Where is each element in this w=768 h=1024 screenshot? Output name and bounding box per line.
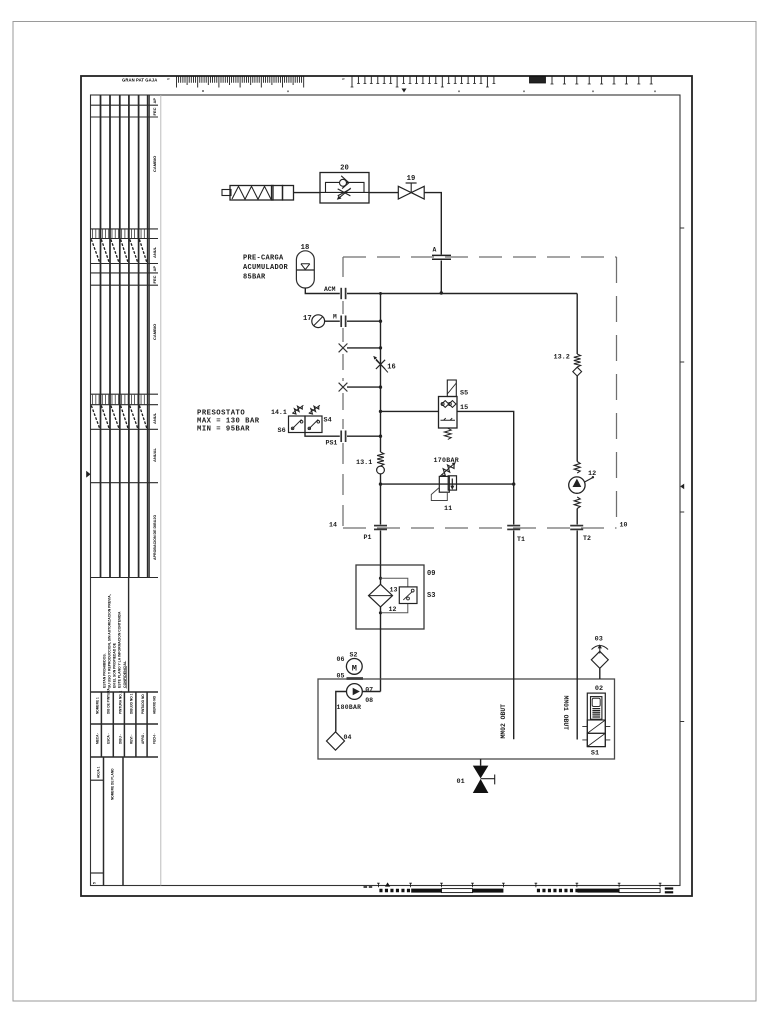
motor-pump coupling bar <box>347 677 364 680</box>
svg-text:20: 20 <box>340 165 349 173</box>
svg-text:NOMBRE 1: NOMBRE 1 <box>96 697 100 714</box>
pump suction wire <box>336 692 347 732</box>
filter diamond <box>369 584 393 607</box>
right frame edge ticks <box>680 228 684 722</box>
svg-text:HIERRO NO: HIERRO NO <box>152 695 156 714</box>
svg-text:FECH -: FECH - <box>152 733 156 744</box>
pump outlet wire <box>362 691 380 693</box>
svg-text:MECA -: MECA - <box>96 733 100 744</box>
bottom-right hamburger mark <box>665 887 673 889</box>
valve 15 poppet symbols <box>442 401 449 408</box>
title block: group 2 tick row <box>91 393 159 395</box>
svg-text:PRESOSTATO: PRESOSTATO <box>197 409 245 417</box>
svg-text:SU USO Y REPRODUCCION, SIN AUT: SU USO Y REPRODUCCION, SIN AUTORIZACION … <box>108 594 112 688</box>
svg-text:06: 06 <box>337 656 345 663</box>
title block: group 1 diagonal row <box>91 239 147 262</box>
pressure gauge 17 <box>312 315 325 328</box>
ruler group 1 fine ticks <box>177 77 304 88</box>
wire PS1 to main line <box>347 435 381 437</box>
svg-text:MM01 OBUT: MM01 OBUT <box>562 696 569 731</box>
svg-text:PINTURA NO. 1: PINTURA NO. 1 <box>119 691 123 714</box>
svg-text:11: 11 <box>444 505 452 513</box>
cylinder internal spring <box>232 186 271 199</box>
breather stem <box>599 668 601 679</box>
svg-text:S6: S6 <box>278 427 286 435</box>
title block: revision group 2 rows <box>91 272 159 274</box>
wire 13.2 to hand pump <box>576 376 578 462</box>
solenoid valve 15 body <box>439 397 458 429</box>
title block: approval tall cell <box>101 483 148 578</box>
svg-text:01: 01 <box>457 778 465 786</box>
svg-text:180BAR: 180BAR <box>337 704 362 711</box>
svg-text:08: 08 <box>365 697 373 704</box>
ruler group 2 ticks <box>352 77 494 88</box>
wire P1 to filter 09 <box>380 531 382 566</box>
svg-text:ANUAL: ANUAL <box>152 447 157 462</box>
S4 contact <box>308 420 318 430</box>
svg-text:18: 18 <box>301 244 310 252</box>
svg-text:ESCA -: ESCA - <box>107 733 111 744</box>
svg-text:M: M <box>333 314 337 321</box>
wire accumulator to ACM port <box>305 288 340 294</box>
svg-text:M: M <box>352 663 357 673</box>
svg-text:ESTAN PROHIBIDOS.: ESTAN PROHIBIDOS. <box>103 653 107 688</box>
shutoff valve 19 <box>398 186 424 199</box>
bottom scale bar right group <box>535 883 662 887</box>
svg-text:NOMBRE DE PLANO: NOMBRE DE PLANO <box>111 768 115 800</box>
air breather 03 <box>591 651 608 668</box>
wire 15 to T1 drop <box>457 411 514 484</box>
title block: annual cell <box>101 429 148 482</box>
svg-text:17: 17 <box>303 315 312 323</box>
svg-text:03: 03 <box>595 636 603 644</box>
M port coupling <box>340 316 342 328</box>
svg-text:CONFIDENCIAL: CONFIDENCIAL <box>123 660 127 688</box>
accumulator 18 <box>296 251 314 288</box>
ruler baseline marks on inner frame <box>203 90 655 92</box>
svg-text:ANUL: ANUL <box>152 412 157 424</box>
svg-text:MIN = 95BAR: MIN = 95BAR <box>197 426 250 434</box>
svg-text:85BAR: 85BAR <box>243 274 266 282</box>
title block: group 1 tick row <box>91 228 159 230</box>
hand pump upper spring <box>574 462 580 474</box>
svg-text:S1: S1 <box>591 750 599 758</box>
PS1 port coupling <box>340 431 342 443</box>
hand pump lower spring <box>574 497 580 509</box>
svg-text:13.2: 13.2 <box>554 354 570 362</box>
filler/level unit 02 outer <box>587 693 605 747</box>
svg-text:DIB DE PINTURA: DIB DE PINTURA <box>107 687 111 714</box>
svg-text:14.1: 14.1 <box>271 409 287 416</box>
port T1 coupling <box>507 525 520 527</box>
svg-text:A: A <box>433 247 437 254</box>
svg-text:13.1: 13.1 <box>356 459 372 467</box>
title block: group 2 diagonal row <box>91 406 147 429</box>
svg-text:T2: T2 <box>583 535 591 542</box>
tank box <box>318 679 615 759</box>
svg-text:P1: P1 <box>364 534 372 541</box>
sheet inner frame <box>91 95 681 886</box>
filter bypass bottom <box>379 611 382 614</box>
branch 13.2 drop <box>576 294 578 355</box>
svg-text:5: 5 <box>93 882 97 884</box>
flow control valve 20 box <box>320 173 369 204</box>
svg-text:PRE-CARGA: PRE-CARGA <box>243 255 284 263</box>
port P1 coupling <box>374 525 387 527</box>
T2 pipe into tank <box>576 531 578 740</box>
wire M port to main line <box>347 320 381 322</box>
svg-text:FEC: FEC <box>152 107 157 115</box>
solenoid S5 coil <box>447 380 456 397</box>
check valve 13.2 spring <box>574 354 581 367</box>
cylinder body <box>230 186 273 201</box>
title block narrow double line <box>148 95 150 578</box>
wire to T1 port <box>513 484 515 524</box>
svg-text:DIBU -: DIBU - <box>119 734 123 744</box>
node A crossing bars <box>432 254 451 256</box>
flow control 20 adjust arrow <box>339 188 351 198</box>
wire 19 to node A <box>424 193 441 255</box>
bottom scale: left micro dashes <box>364 886 373 888</box>
wire pump to T2 port <box>576 509 578 525</box>
svg-text:AP: AP <box>152 266 157 272</box>
flow control 20 check ball <box>340 179 347 186</box>
svg-text:07: 07 <box>365 687 373 694</box>
svg-text:REVI -: REVI - <box>130 735 134 744</box>
svg-text:S2: S2 <box>350 652 358 659</box>
relief valve 11 pilot loop <box>431 488 447 501</box>
wire X upper to main line <box>347 347 381 349</box>
svg-text:MAX = 130 BAR: MAX = 130 BAR <box>197 417 260 425</box>
svg-text:09: 09 <box>427 570 435 578</box>
cylinder 20 rod <box>222 190 231 196</box>
pump 07/08 <box>347 684 363 700</box>
plugged port X lower <box>339 383 348 392</box>
relief valve 11 spring <box>439 461 456 477</box>
svg-text:14: 14 <box>329 522 337 529</box>
drain valve 01 stub <box>480 759 482 766</box>
svg-text:S5: S5 <box>460 390 468 398</box>
T1 pipe into tank <box>513 531 515 740</box>
svg-text:FEC: FEC <box>152 275 157 283</box>
wire junction to P1 <box>380 484 382 524</box>
svg-text:CAMBIO: CAMBIO <box>152 324 157 340</box>
svg-text:12: 12 <box>389 606 397 613</box>
svg-text:170BAR: 170BAR <box>434 457 460 464</box>
wire filter to pump line <box>380 607 382 629</box>
filter line through <box>380 565 382 585</box>
svg-text:EN EL SON PROPIEDAD DE: EN EL SON PROPIEDAD DE <box>113 642 117 688</box>
valve 19 stem <box>410 183 412 193</box>
svg-text:02: 02 <box>595 685 603 693</box>
S3 contact <box>403 591 412 600</box>
electric motor M <box>346 659 362 675</box>
wire gauge 17 to M port <box>325 320 340 322</box>
svg-text:APROBACION DE DIBUJO: APROBACION DE DIBUJO <box>153 515 157 560</box>
drain valve 01 <box>473 766 489 779</box>
wire X lower to main line <box>347 386 381 388</box>
left frame centering arrow <box>86 471 90 478</box>
svg-text:04: 04 <box>344 734 352 741</box>
svg-text:ESTE PLANO Y LA INFORMACION CO: ESTE PLANO Y LA INFORMACION CONTENIDA <box>118 611 122 688</box>
level gauge cell 1 <box>587 720 605 733</box>
bottom scale: centering triangle <box>385 882 390 886</box>
hand pump 12 <box>569 477 585 493</box>
svg-text:10: 10 <box>620 522 628 529</box>
filler cap box <box>591 697 602 720</box>
svg-text:HOJA 1: HOJA 1 <box>97 766 101 778</box>
port T2 coupling <box>570 525 583 527</box>
relief valve 11 body <box>439 476 449 492</box>
switch S3 box <box>399 587 417 604</box>
title block shadow line <box>160 95 162 886</box>
manifold dashed boundary box <box>343 256 617 258</box>
filter element line <box>369 595 393 597</box>
ruler group 3 ticks <box>552 77 651 85</box>
accumulator gas valve symbol <box>301 264 310 270</box>
hand pump 12 lever <box>585 478 593 482</box>
S4 actuator spring <box>308 404 321 415</box>
wire 20 to valve 19 <box>369 192 398 194</box>
valve 15 lower position <box>441 418 456 420</box>
filter bypass top <box>379 577 382 580</box>
title block: field row 2 <box>91 723 159 725</box>
svg-text:16: 16 <box>387 363 395 371</box>
relief line to T1 <box>381 483 514 485</box>
plugged port X upper <box>339 344 348 353</box>
svg-text:13: 13 <box>390 587 398 594</box>
svg-text:ACM: ACM <box>324 286 336 293</box>
right frame centering arrow <box>680 484 684 490</box>
suction strainer 04 <box>327 732 345 750</box>
flow control 20 through line <box>320 191 369 193</box>
level gauge cell 2 <box>587 733 605 746</box>
svg-text:AP: AP <box>152 98 157 104</box>
title block: revision group 1 rows <box>91 104 159 106</box>
drain valve 01 handle <box>481 775 495 785</box>
main vertical pressure line <box>380 294 382 453</box>
bottom scale bar left group <box>377 883 505 887</box>
flow control 20 throttle cross <box>338 189 351 196</box>
title block: confidencial cell divider <box>128 578 130 693</box>
check valve 13.2 poppet <box>573 367 582 376</box>
check valve 13.1 spring <box>377 452 384 466</box>
svg-text:19: 19 <box>407 175 416 183</box>
svg-text:ANUL: ANUL <box>152 246 157 258</box>
pressure switch S6 box <box>289 416 306 433</box>
flow control 20 bypass loop <box>326 182 365 192</box>
ruler group 3 start block <box>530 77 546 84</box>
svg-text:12: 12 <box>588 470 596 478</box>
title block: bottom section <box>91 756 159 758</box>
cylinder piston blocks <box>272 186 283 201</box>
accumulator gas line <box>296 269 314 271</box>
S6 actuator spring <box>291 404 304 415</box>
svg-text:DIBUJO NO 1: DIBUJO NO 1 <box>130 693 134 714</box>
sheet outer border <box>81 76 692 896</box>
wire node A to bus <box>440 261 442 294</box>
ACM port coupling <box>340 288 342 299</box>
pressure bus line <box>381 293 578 295</box>
svg-text:S3: S3 <box>427 592 435 600</box>
check valve 13.1 ball <box>377 466 385 474</box>
needle valve 16 <box>376 360 385 369</box>
wire cylinder to flow control 20 <box>294 192 321 194</box>
svg-text:MM02 OBUT: MM02 OBUT <box>500 704 507 739</box>
svg-text:S4: S4 <box>324 417 332 425</box>
relief valve 11 internal arrow <box>451 479 453 489</box>
pressure switch S4 box <box>305 416 322 433</box>
svg-text:T1: T1 <box>517 536 525 543</box>
svg-text:GRAN PAT GAJA: GRAN PAT GAJA <box>122 78 157 83</box>
svg-text:APRO -: APRO - <box>141 733 145 744</box>
flow control 20 check seat <box>341 176 349 189</box>
solenoid valve 15 wire <box>381 410 439 412</box>
filter unit 09 box <box>356 565 424 629</box>
svg-text:CAMBIO: CAMBIO <box>152 156 157 172</box>
svg-text:PS1: PS1 <box>326 440 338 447</box>
valve 15 spring <box>444 428 451 439</box>
S6 contact <box>292 420 302 430</box>
wire switches to PS1 <box>305 433 340 437</box>
svg-text:ACUMULADOR: ACUMULADOR <box>243 264 289 272</box>
svg-text:PINTADO NO: PINTADO NO <box>141 694 145 714</box>
wire ACM to bus <box>347 293 381 295</box>
wire 13.1 to relief junction <box>380 474 382 484</box>
title block: field row 1 <box>91 691 159 693</box>
